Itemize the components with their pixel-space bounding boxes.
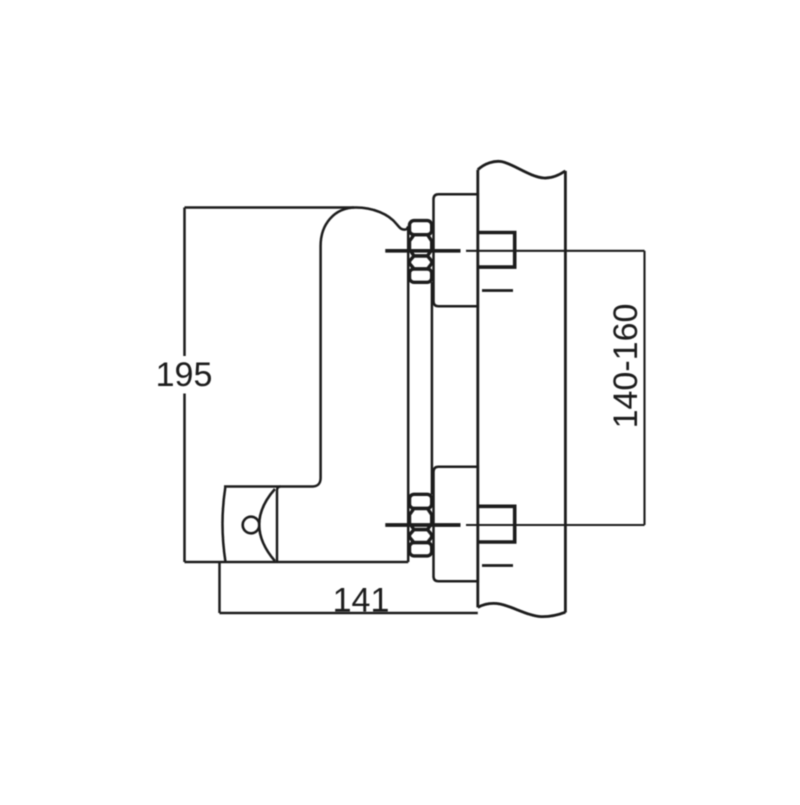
top centerline bold — [385, 249, 460, 253]
top flange — [434, 194, 478, 306]
tube right edge — [431, 282, 434, 495]
knob left arc — [222, 488, 225, 563]
body step corner to knob — [277, 478, 321, 562]
svg-text:195: 195 — [156, 356, 213, 394]
faucet body dome and left column — [321, 208, 409, 479]
svg-text:140-160: 140-160 — [607, 304, 645, 429]
top nut — [410, 221, 432, 283]
top wall fitting rectangle — [479, 233, 515, 268]
wall break wave bottom — [478, 603, 566, 616]
dimension 195 line upper — [183, 208, 186, 357]
bottom nut — [410, 494, 432, 556]
knob screw circle — [243, 517, 260, 534]
dimension 141 extension left — [218, 562, 221, 613]
wall break wave top — [478, 161, 566, 178]
bottom centerline bold — [385, 523, 460, 527]
svg-text:141: 141 — [333, 582, 390, 620]
top fitting pipe stub line — [482, 289, 513, 292]
dimension 140-160 line — [643, 251, 645, 525]
bottom centerline thin — [466, 524, 645, 526]
top centerline thin — [466, 250, 645, 252]
tube left edge — [407, 227, 410, 563]
wall line right — [564, 171, 567, 613]
dimension 195 extension top — [185, 206, 355, 209]
dimension 141 line — [220, 612, 478, 615]
body bottom line — [185, 561, 409, 564]
dimension 195 line lower — [183, 394, 186, 563]
knob top line — [224, 485, 281, 488]
bottom fitting pipe stub line — [482, 564, 513, 567]
wall line left — [476, 170, 479, 608]
knob dome arc — [259, 489, 275, 561]
bottom flange — [434, 467, 478, 582]
bottom wall fitting rectangle — [479, 506, 515, 542]
